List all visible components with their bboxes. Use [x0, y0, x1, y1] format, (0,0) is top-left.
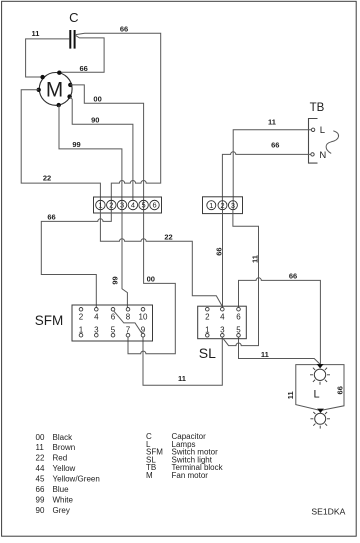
SFM internal link 6-9 [114, 311, 143, 334]
label 11 lamp [261, 350, 269, 359]
SL pin 2 [205, 307, 210, 321]
svg-text:66: 66 [80, 64, 88, 73]
svg-text:00: 00 [36, 433, 45, 442]
label 66 lamp [289, 271, 297, 280]
svg-text:SL: SL [199, 345, 216, 361]
svg-text:90: 90 [36, 506, 45, 515]
lamp L1 terminal [317, 364, 324, 368]
wire 00 motor-strip [70, 85, 143, 210]
svg-text:66: 66 [120, 25, 128, 34]
svg-text:6: 6 [236, 313, 241, 322]
svg-text:2: 2 [220, 201, 224, 210]
motor terminal 22 [37, 88, 41, 92]
SFM pin 10 [139, 308, 148, 322]
TB cable hook [326, 131, 338, 154]
label 11 TB [268, 118, 276, 127]
svg-text:66: 66 [271, 140, 279, 149]
svg-text:2: 2 [109, 201, 113, 210]
terminal 4 (strip1) [128, 200, 138, 210]
label 11 bottom [178, 374, 186, 383]
svg-text:Grey: Grey [53, 506, 70, 515]
svg-text:8: 8 [126, 312, 131, 321]
legend components [146, 432, 224, 480]
wire 11 TB-strip2 [233, 130, 311, 210]
svg-text:M: M [146, 471, 153, 480]
wire 66 strip-SFM [41, 210, 111, 308]
wire 90 motor-strip [70, 97, 133, 201]
motor terminal 99 [57, 103, 61, 107]
SFM pin 1 [79, 325, 84, 337]
wire 11 SL-lamp [239, 337, 321, 364]
SFM pin 5 [111, 325, 116, 337]
svg-text:TB: TB [310, 102, 325, 114]
lamp unit outline [296, 365, 344, 411]
terminal 1 (strip2) [207, 201, 216, 210]
svg-text:99: 99 [36, 496, 45, 505]
svg-text:White: White [53, 496, 74, 505]
SL pin 3 [220, 326, 225, 338]
svg-text:00: 00 [93, 94, 101, 103]
svg-text:11: 11 [32, 29, 40, 38]
label 66 near motor [80, 64, 88, 73]
svg-text:11: 11 [178, 374, 186, 383]
terminal 3 (strip1) [117, 200, 127, 210]
switch motor SFM box [72, 305, 153, 341]
terminal 6 (strip1) [150, 200, 160, 210]
motor terminal 11 [40, 75, 44, 79]
svg-text:L: L [320, 125, 325, 136]
label 11 vertical [251, 255, 260, 263]
capacitor C [69, 30, 75, 49]
svg-text:5: 5 [142, 201, 146, 210]
SL pin 6 [236, 307, 241, 321]
label 90 motor [91, 115, 99, 124]
motor terminal 90 [67, 94, 71, 98]
label N (TB) [319, 150, 326, 161]
svg-text:1: 1 [209, 201, 213, 210]
svg-text:22: 22 [43, 174, 51, 183]
svg-text:99: 99 [111, 276, 120, 284]
terminal block 1-3 box [203, 197, 243, 214]
SL pin 4 [220, 307, 225, 321]
wire 11 SL-SFM [143, 337, 222, 385]
TB terminal N [311, 153, 314, 156]
svg-text:M: M [46, 78, 63, 101]
svg-text:11: 11 [261, 350, 269, 359]
drawing number SE1DKA [311, 507, 345, 517]
svg-text:Yellow: Yellow [53, 464, 76, 473]
SFM pin 7 [126, 325, 131, 337]
SFM pin 4 [94, 308, 99, 322]
label 00 mid [147, 275, 155, 284]
svg-text:11: 11 [36, 443, 45, 452]
SFM pin 2 [79, 308, 84, 322]
wire 22 strip-SL [100, 210, 222, 306]
label 00 motor [93, 94, 101, 103]
wire 00 strip-SFM [128, 210, 175, 354]
SFM pin 9 [141, 325, 146, 337]
terminal 3 (strip2) [228, 201, 237, 210]
lamp L2 terminal [317, 409, 324, 413]
label 66 TB [271, 140, 279, 149]
wire 11 strip2-SL [223, 210, 258, 346]
label 66 mid-left [47, 212, 55, 221]
wire 22 motor-strip [21, 90, 100, 210]
switch light SL box [198, 306, 247, 339]
label 11 top-left [32, 29, 40, 38]
svg-text:11: 11 [251, 255, 260, 263]
legend wire colours [36, 433, 100, 515]
svg-text:99: 99 [72, 140, 80, 149]
motor terminal 00 [68, 83, 72, 87]
svg-text:Fan motor: Fan motor [172, 471, 209, 480]
svg-text:45: 45 [36, 475, 45, 484]
svg-text:22: 22 [164, 233, 172, 242]
SFM pin 8 [126, 308, 131, 322]
svg-text:7: 7 [126, 325, 131, 334]
terminal 5 (strip1) [139, 200, 149, 210]
svg-text:N: N [319, 150, 326, 161]
svg-text:2: 2 [79, 312, 84, 321]
svg-text:44: 44 [36, 464, 45, 473]
svg-text:00: 00 [147, 275, 155, 284]
svg-text:3: 3 [94, 325, 99, 334]
svg-text:L: L [314, 388, 320, 400]
TB terminal L [311, 128, 314, 131]
svg-text:4: 4 [131, 201, 135, 210]
terminal block TB bracket [309, 119, 318, 164]
label 22 mid [164, 233, 172, 242]
svg-text:3: 3 [231, 201, 235, 210]
svg-text:1: 1 [79, 325, 84, 334]
label 66 lamp-right [335, 386, 344, 394]
label 99 vertical [111, 276, 120, 284]
motor terminal 66 [57, 71, 61, 75]
svg-text:SE1DKA: SE1DKA [311, 507, 345, 517]
svg-text:1: 1 [98, 201, 102, 210]
svg-text:2: 2 [205, 313, 210, 322]
svg-text:SFM: SFM [35, 313, 64, 328]
fan motor M [39, 73, 72, 106]
wire 99 strip-SFM [122, 210, 127, 308]
svg-text:Brown: Brown [53, 443, 76, 452]
label L (TB) [320, 125, 325, 136]
label C [69, 10, 78, 25]
label SL [199, 345, 216, 361]
label 66 top [120, 25, 128, 34]
wire 66 top run [76, 33, 161, 210]
label TB [310, 102, 325, 114]
label 66 vertical [214, 247, 223, 255]
svg-text:11: 11 [286, 391, 295, 399]
wire 99 motor-strip [59, 105, 122, 210]
wire 66 capacitor-motor [60, 36, 105, 73]
svg-text:6: 6 [111, 312, 116, 321]
SFM pin 6 [111, 308, 116, 322]
svg-text:66: 66 [214, 247, 223, 255]
lamp L1 [310, 365, 330, 385]
svg-text:66: 66 [36, 485, 45, 494]
label L (lamps) [314, 388, 320, 400]
terminal 2 (strip1) [107, 200, 117, 210]
svg-text:Black: Black [53, 433, 74, 442]
svg-text:5: 5 [111, 325, 116, 334]
svg-text:66: 66 [335, 386, 344, 394]
terminal block 1-6 box [94, 197, 162, 213]
svg-text:Red: Red [53, 454, 68, 463]
terminal 1 (strip1) [96, 200, 106, 210]
label SFM [35, 313, 64, 328]
svg-text:Blue: Blue [53, 485, 70, 494]
wire 11 capacitor-motor [26, 39, 70, 77]
svg-text:C: C [69, 10, 78, 25]
svg-text:3: 3 [120, 201, 124, 210]
wire 66 strip2-SL [222, 210, 224, 308]
lamp L2 [310, 409, 330, 429]
label 11 lamp-left [286, 391, 295, 399]
wire 66 TB-strip2 [222, 152, 310, 210]
svg-text:22: 22 [36, 454, 45, 463]
SL pin 1 [205, 326, 210, 338]
SL pin 5 [236, 326, 241, 338]
svg-text:90: 90 [91, 115, 99, 124]
label 99 motor [72, 140, 80, 149]
label 22 motor [43, 174, 51, 183]
SFM pin 3 [94, 325, 99, 337]
svg-text:10: 10 [139, 312, 148, 321]
svg-text:66: 66 [47, 212, 55, 221]
svg-text:Yellow/Green: Yellow/Green [53, 475, 100, 484]
svg-text:4: 4 [220, 313, 225, 322]
svg-text:11: 11 [268, 118, 276, 127]
svg-text:4: 4 [94, 312, 99, 321]
terminal 2 (strip2) [218, 201, 227, 210]
wire 66 SL-lamp [239, 278, 321, 364]
svg-text:66: 66 [289, 271, 297, 280]
svg-text:6: 6 [152, 201, 156, 210]
